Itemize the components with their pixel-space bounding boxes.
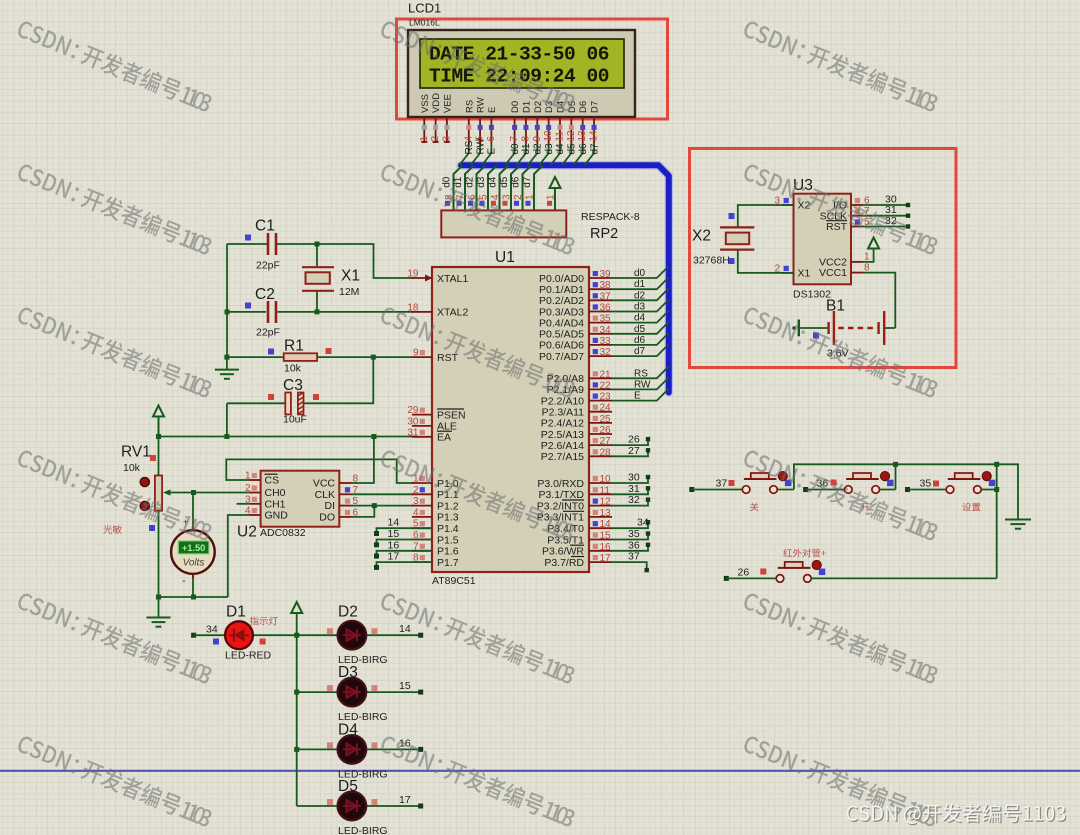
- svg-text:18: 18: [407, 302, 419, 313]
- wire LCD pin 5 (RW) to bus: [471, 143, 481, 165]
- net 31 from U3: [863, 215, 909, 217]
- svg-text:d0: d0: [634, 268, 646, 279]
- svg-text:VSS: VSS: [420, 94, 431, 113]
- button37 riser to gnd rail: [794, 464, 1018, 519]
- svg-text:E: E: [487, 107, 498, 113]
- stub U2 CH1: [237, 503, 249, 505]
- svg-text:GND: GND: [265, 510, 289, 522]
- U1 pin 23 P2.2/A10: [589, 400, 612, 402]
- resistor pack RP2 body: [441, 210, 566, 237]
- svg-text:C2: C2: [255, 286, 275, 303]
- LED D5 (green): [297, 805, 338, 807]
- MCU U1 AT89C51 body: [432, 267, 589, 572]
- power symbol on VCC rail: [153, 406, 164, 417]
- U1 pin 8 P1.7: [412, 561, 432, 563]
- U1 pin 28 P2.7/A15: [589, 455, 612, 457]
- svg-text:d1: d1: [521, 143, 532, 155]
- power symbol on U3 VCC2: [863, 248, 874, 262]
- junction LED rail D3: [294, 690, 299, 695]
- wire bus to RP2 pin 1 (d7): [534, 165, 543, 210]
- button35 riser: [994, 462, 999, 467]
- svg-text:P1.2: P1.2: [437, 500, 459, 512]
- svg-text:35: 35: [628, 528, 640, 540]
- svg-text:8: 8: [520, 136, 531, 142]
- VCC rail to EA pin 31: [159, 436, 415, 438]
- net 16 stub to U1: [377, 551, 433, 556]
- svg-text:29: 29: [407, 405, 419, 416]
- LED D3 (green): [297, 691, 338, 693]
- svg-text:DO: DO: [319, 512, 335, 524]
- U2 pin 2 CH0: [249, 492, 261, 494]
- svg-text:P2.7/A15: P2.7/A15: [541, 451, 584, 463]
- wire LCD pin 8 (d1) to bus: [516, 143, 526, 165]
- U2 pin 4 GND: [249, 514, 261, 516]
- svg-text:RW: RW: [634, 379, 651, 390]
- svg-text:X1: X1: [341, 268, 360, 285]
- svg-text:25: 25: [600, 414, 612, 425]
- junction VCC rail / C3: [224, 434, 229, 439]
- wire LCD pin 4 (RS) to bus: [459, 143, 469, 165]
- wire U1 P0.0 to bus (d0): [612, 266, 669, 278]
- svg-text:EA: EA: [437, 432, 451, 444]
- wire C2/X1 to XTAL2: [317, 311, 414, 313]
- capacitor C3 (electrolytic): [227, 402, 286, 404]
- net 15 stub to U1: [377, 540, 433, 545]
- junction DI/DO: [372, 503, 377, 508]
- svg-text:D1: D1: [226, 604, 246, 621]
- svg-text:P3.2/INT0: P3.2/INT0: [537, 500, 584, 512]
- svg-text:14: 14: [399, 623, 411, 635]
- wire LCD pin 7 (d0) to bus: [505, 143, 514, 165]
- svg-text:12: 12: [600, 497, 612, 508]
- svg-text:RW: RW: [475, 137, 486, 154]
- U1 pin 34 P0.5/AD5: [589, 333, 612, 335]
- svg-text:35: 35: [920, 478, 932, 490]
- svg-text:16: 16: [600, 542, 612, 553]
- U1 pin 11 P3.1/TXD: [589, 493, 612, 495]
- svg-text:P3.3/INT1: P3.3/INT1: [537, 512, 584, 524]
- svg-text:4: 4: [413, 507, 419, 518]
- svg-text:d4: d4: [487, 176, 498, 188]
- U1 pin 31 EA: [412, 436, 432, 438]
- net 32 stub from U1: [612, 500, 648, 506]
- svg-text:LCD1: LCD1: [408, 1, 441, 16]
- svg-text:10k: 10k: [123, 462, 141, 474]
- push button (37) off: [689, 487, 694, 492]
- potentiometer RV1: [158, 437, 160, 476]
- svg-text:U1: U1: [495, 249, 515, 266]
- wire U1 P0.3 to bus (d3): [612, 300, 669, 312]
- svg-text:DATE 21-33-50 06: DATE 21-33-50 06: [429, 44, 609, 66]
- wire U1 P0.2 to bus (d2): [612, 288, 669, 300]
- svg-text:Volts: Volts: [183, 558, 205, 569]
- svg-text:X1: X1: [798, 268, 811, 280]
- junction C2 left: [225, 309, 230, 314]
- wire U2 CLK to U1 P1.1: [351, 493, 414, 495]
- svg-text:P3.0/RXD: P3.0/RXD: [537, 478, 584, 490]
- U1 pin 14 P3.4/T0: [589, 527, 612, 529]
- wire U2 CH0 to RV1 wiper: [194, 492, 249, 494]
- svg-text:P1.7: P1.7: [437, 557, 459, 569]
- wire bus to RP2 pin 3 (d5): [511, 165, 520, 210]
- resistor R1: [227, 356, 284, 358]
- push button (35) set: [905, 487, 910, 492]
- capacitor C2: [227, 311, 266, 313]
- svg-text:22: 22: [600, 380, 612, 391]
- LED D4 (green): [297, 748, 338, 750]
- svg-text:d3: d3: [476, 176, 487, 188]
- U3 pin 3 X2: [782, 204, 794, 206]
- svg-text:12M: 12M: [339, 286, 359, 298]
- svg-text:11: 11: [555, 131, 566, 142]
- svg-text:37: 37: [600, 291, 612, 302]
- svg-text:14: 14: [388, 517, 400, 529]
- wire bus to RP2 pin 7 (d1): [465, 165, 474, 210]
- svg-text:XTAL1: XTAL1: [437, 273, 468, 285]
- svg-text:1: 1: [864, 252, 870, 263]
- svg-text:D1: D1: [521, 101, 532, 113]
- U1 pin 6 P1.5: [412, 539, 432, 541]
- svg-text:36: 36: [600, 303, 612, 314]
- crystal X1: [316, 244, 318, 267]
- red selection frame around DS1302 clock section: [690, 149, 957, 368]
- svg-text:P0.6/AD6: P0.6/AD6: [539, 340, 584, 352]
- svg-text:C3: C3: [283, 377, 303, 394]
- svg-text:P1.4: P1.4: [437, 523, 459, 535]
- net 35 stub from U1: [612, 534, 648, 540]
- svg-text:D2: D2: [533, 101, 544, 113]
- power symbol LED rail: [291, 602, 302, 613]
- svg-text:E: E: [634, 391, 641, 402]
- svg-text:CH0: CH0: [265, 487, 286, 499]
- svg-text:P1.3: P1.3: [437, 512, 459, 524]
- wire C3 left down to VCC rail: [226, 403, 228, 436]
- net 14 stub to U1: [377, 528, 433, 533]
- wire U1 P0.6 to bus (d6): [612, 333, 669, 345]
- wire LCD pin 6 (E) to bus: [482, 143, 492, 165]
- crystal X2: [738, 205, 794, 227]
- svg-text:2: 2: [513, 194, 524, 200]
- svg-text:9: 9: [532, 136, 543, 142]
- svg-text:d2: d2: [464, 176, 475, 188]
- svg-text:26: 26: [738, 567, 750, 579]
- U2 pin 8 VCC: [339, 482, 351, 484]
- net 30 stub from U1: [612, 477, 648, 483]
- svg-text:ADC0832: ADC0832: [260, 527, 306, 539]
- U3 pin 5 RST: [851, 226, 863, 228]
- svg-text:35: 35: [600, 314, 612, 325]
- svg-text:RS: RS: [464, 100, 475, 113]
- svg-text:VCC: VCC: [313, 478, 336, 490]
- svg-text:P1.5: P1.5: [437, 534, 459, 546]
- wire U1 P0.5 to bus (d5): [612, 322, 669, 334]
- svg-text:38: 38: [600, 280, 612, 291]
- svg-text:3: 3: [413, 496, 419, 507]
- wire U2 GND down to ground rail: [228, 515, 249, 597]
- svg-text:33: 33: [600, 336, 612, 347]
- wire LCD pin 12 (d5) to bus: [562, 143, 572, 165]
- wire U1 to bus (RS): [612, 366, 669, 378]
- svg-text:-: -: [182, 575, 186, 587]
- svg-text:1: 1: [419, 136, 430, 142]
- U3 pin 1 VCC2: [851, 261, 863, 263]
- U1 pin 15 P3.5/T1: [589, 539, 612, 541]
- svg-text:P0.4/AD4: P0.4/AD4: [539, 317, 584, 329]
- svg-text:23: 23: [600, 392, 612, 403]
- svg-text:VDD: VDD: [431, 93, 442, 113]
- svg-text:X2: X2: [692, 228, 711, 245]
- svg-text:3: 3: [441, 136, 452, 142]
- LCD LM016L body: [408, 30, 635, 117]
- svg-text:RST: RST: [826, 221, 848, 233]
- svg-text:D2: D2: [338, 604, 358, 621]
- svg-text:13: 13: [577, 130, 588, 142]
- button36 riser: [895, 464, 897, 489]
- wire U2 DO joins DI: [351, 506, 374, 517]
- svg-text:d4: d4: [555, 143, 566, 155]
- svg-text:6: 6: [486, 136, 497, 142]
- svg-text:D3: D3: [338, 664, 358, 681]
- wire LCD pin 13 (d6) to bus: [573, 143, 583, 165]
- net 26 stub from U1: [612, 439, 648, 445]
- wire U1 P0.4 to bus (d4): [612, 311, 669, 323]
- U1 pin 16 P3.6/WR: [589, 550, 612, 552]
- analog ground rail: [159, 596, 228, 598]
- junction CH0 / voltmeter: [191, 490, 196, 495]
- wire bus to RP2 pin 2 (d6): [523, 165, 532, 210]
- push button (26) infrared: [724, 576, 729, 581]
- wire bus to RP2 pin 6 (d2): [477, 165, 486, 210]
- U1 pin 5 P1.4: [412, 527, 432, 529]
- svg-text:10: 10: [543, 130, 554, 142]
- svg-text:27: 27: [628, 445, 640, 457]
- svg-text:19: 19: [407, 269, 419, 280]
- U1 pin 21 P2.0/A8: [589, 377, 612, 379]
- wire U3 VCC1 to battery: [863, 273, 896, 328]
- svg-text:D7: D7: [590, 101, 601, 113]
- svg-text:17: 17: [388, 551, 400, 563]
- U1 pin 12 P3.2/INT0: [589, 505, 612, 507]
- CSDN signature: [847, 804, 1067, 826]
- U1 pin 1 P1.0: [412, 482, 432, 484]
- svg-text:U2: U2: [237, 524, 257, 541]
- LCD green screen: [420, 39, 624, 88]
- svg-text:d7: d7: [634, 346, 646, 357]
- svg-text:17: 17: [600, 553, 612, 564]
- U1 pin 13 P3.3/INT1: [589, 516, 612, 518]
- net 27 stub from U1: [612, 450, 648, 456]
- svg-text:RESPACK-8: RESPACK-8: [581, 211, 640, 223]
- U1 pin 3 P1.2: [412, 505, 432, 507]
- wire U2 CS to U1 P1.0: [226, 459, 414, 483]
- svg-text:32: 32: [628, 494, 640, 506]
- wire U1 to bus (RW): [612, 377, 669, 389]
- svg-text:RW: RW: [476, 97, 487, 113]
- push button (36) on: [803, 487, 808, 492]
- svg-text:DI: DI: [325, 500, 336, 512]
- wire LCD pin 11 (d4) to bus: [551, 143, 561, 165]
- battery B1 3.6V: [793, 327, 796, 330]
- U1 pin 19 XTAL1: [412, 277, 432, 279]
- svg-text:VEE: VEE: [442, 94, 453, 113]
- U1 pin 18 XTAL2: [412, 311, 432, 313]
- wire bus to RP2 pin 8 (d0): [454, 165, 463, 210]
- photosensitive label: [103, 525, 121, 534]
- U1 pin 32 P0.7/AD7: [589, 355, 612, 357]
- svg-text:31: 31: [407, 427, 419, 438]
- svg-text:AT89C51: AT89C51: [432, 575, 476, 587]
- svg-text:d2: d2: [533, 143, 544, 155]
- U2 pin 6 DO: [339, 516, 351, 518]
- junction LED rail D4: [294, 747, 299, 752]
- U3 pin 8 VCC1: [851, 272, 863, 274]
- svg-text:P2.6/A14: P2.6/A14: [541, 440, 584, 452]
- svg-text:d5: d5: [634, 324, 646, 335]
- svg-text:D0: D0: [510, 101, 521, 113]
- svg-text:P1.6: P1.6: [437, 546, 459, 558]
- svg-text:10uF: 10uF: [283, 414, 307, 426]
- svg-text:P0.0/AD0: P0.0/AD0: [539, 273, 584, 285]
- svg-text:5: 5: [479, 194, 490, 200]
- svg-text:CS: CS: [265, 475, 280, 487]
- svg-text:26: 26: [600, 425, 612, 436]
- svg-text:d6: d6: [634, 335, 646, 346]
- data/control bus (blue): [461, 165, 669, 392]
- svg-text:31: 31: [628, 483, 640, 495]
- U1 pin 39 P0.0/AD0: [589, 277, 612, 279]
- svg-text:15: 15: [399, 680, 411, 692]
- junction R1 right / RST: [371, 355, 376, 360]
- RV1 wiper arrow: [169, 492, 194, 494]
- svg-text:d1: d1: [634, 279, 646, 290]
- U2 pin 3 CH1: [249, 503, 261, 505]
- svg-text:30: 30: [407, 416, 419, 427]
- svg-text:16: 16: [388, 539, 400, 551]
- svg-text:d0: d0: [441, 176, 452, 188]
- svg-text:34: 34: [600, 325, 612, 336]
- svg-text:RS: RS: [634, 368, 648, 379]
- svg-text:d3: d3: [634, 302, 646, 313]
- net 31 stub from U1: [612, 488, 648, 494]
- svg-text:C1: C1: [255, 218, 275, 235]
- U1 pin 24 P2.3/A11: [589, 411, 612, 413]
- svg-text:1: 1: [546, 194, 557, 200]
- XTAL1 pin arrow: [425, 275, 433, 282]
- U1 pin 38 P0.1/AD1: [589, 288, 612, 290]
- svg-text:d7: d7: [589, 143, 600, 155]
- U1 pin 33 P0.6/AD6: [589, 344, 612, 346]
- svg-text:34: 34: [206, 624, 218, 636]
- ground for buttons: [1005, 519, 1031, 521]
- svg-text:D4: D4: [338, 721, 358, 738]
- svg-text:22pF: 22pF: [256, 260, 280, 272]
- svg-text:d3: d3: [544, 143, 555, 155]
- svg-text:VCC1: VCC1: [819, 267, 847, 279]
- svg-text:13: 13: [600, 508, 612, 519]
- svg-text:d4: d4: [634, 313, 646, 324]
- svg-text:RS: RS: [464, 140, 475, 154]
- net 30 from U3: [863, 204, 909, 206]
- svg-text:LED-BIRG: LED-BIRG: [338, 825, 388, 835]
- svg-text:LED-RED: LED-RED: [225, 650, 272, 662]
- U1 pin 17 P3.7/RD: [589, 561, 612, 563]
- svg-text:XTAL2: XTAL2: [437, 307, 468, 319]
- svg-text:D5: D5: [338, 778, 358, 795]
- wire bus to RP2 pin 4 (d4): [500, 165, 509, 210]
- svg-text:11: 11: [600, 485, 611, 496]
- svg-text:R1: R1: [284, 338, 304, 355]
- svg-text:37: 37: [716, 478, 728, 490]
- svg-text:39: 39: [600, 269, 612, 280]
- net 37 stub from U1: [612, 562, 647, 570]
- svg-text:34: 34: [637, 517, 649, 529]
- U3 pin 6 I/O: [851, 204, 863, 206]
- svg-text:P3.1/TXD: P3.1/TXD: [538, 489, 584, 501]
- vertical to infrared button: [996, 464, 998, 578]
- svg-text:27: 27: [600, 436, 612, 447]
- svg-text:28: 28: [600, 447, 612, 458]
- horizontal blue sheet line: [0, 770, 1080, 772]
- svg-text:7: 7: [509, 136, 520, 142]
- svg-text:1: 1: [525, 194, 536, 200]
- junction X1/C2: [315, 309, 320, 314]
- wire LCD pin 14 (d7) to bus: [585, 143, 595, 165]
- U1 pin 29 PSEN: [412, 414, 432, 416]
- svg-text:9: 9: [413, 348, 419, 359]
- wire U1 to bus (E): [612, 389, 669, 401]
- U1 pin 9 RST: [412, 356, 432, 358]
- U2 pin 1 CS: [249, 479, 261, 481]
- svg-text:15: 15: [600, 531, 612, 542]
- wire R1 to RST pin 9: [373, 356, 414, 358]
- svg-text:15: 15: [388, 528, 400, 540]
- junction VCC rail / RV1: [156, 434, 161, 439]
- svg-text:CLK: CLK: [315, 489, 335, 501]
- svg-text:17: 17: [399, 794, 411, 806]
- capacitor C1: [278, 243, 318, 245]
- wire U2 VCC up to VCC rail: [351, 437, 374, 484]
- U1 pin 26 P2.5/A13: [589, 433, 612, 435]
- ground below R1: [226, 357, 228, 369]
- svg-text:d6: d6: [578, 143, 589, 155]
- ground symbol bottom left: [158, 597, 160, 617]
- svg-text:24: 24: [600, 403, 612, 414]
- U1 pin 36 P0.3/AD3: [589, 311, 612, 313]
- LED D2 (green): [297, 634, 338, 636]
- svg-text:CH1: CH1: [265, 498, 286, 510]
- net 34 stub from U1: [612, 522, 648, 528]
- U1 pin 27 P2.6/A14: [589, 444, 612, 446]
- wire LCD pin 10 (d3) to bus: [539, 143, 549, 165]
- svg-text:P0.2/AD2: P0.2/AD2: [539, 295, 584, 307]
- svg-text:B1: B1: [826, 298, 845, 315]
- junction R1 left: [224, 355, 229, 360]
- junction C1/X1: [315, 242, 320, 247]
- svg-text:37: 37: [628, 551, 640, 563]
- U3 pin 7 SCLK: [851, 215, 863, 217]
- svg-text:P2.3/A11: P2.3/A11: [542, 407, 585, 419]
- U1 pin 7 P1.6: [412, 550, 432, 552]
- U1 pin 4 P1.3: [412, 516, 432, 518]
- svg-text:d7: d7: [522, 176, 533, 188]
- ADC U2 ADC0832 body: [261, 471, 340, 527]
- U1 pin 30 ALE: [412, 425, 432, 427]
- left vertical wire C1-C2-R1: [226, 244, 228, 357]
- net 32 from U3: [863, 226, 909, 228]
- svg-text:d5: d5: [499, 176, 510, 188]
- svg-text:RV1: RV1: [121, 444, 151, 461]
- svg-text:RP2: RP2: [590, 226, 618, 242]
